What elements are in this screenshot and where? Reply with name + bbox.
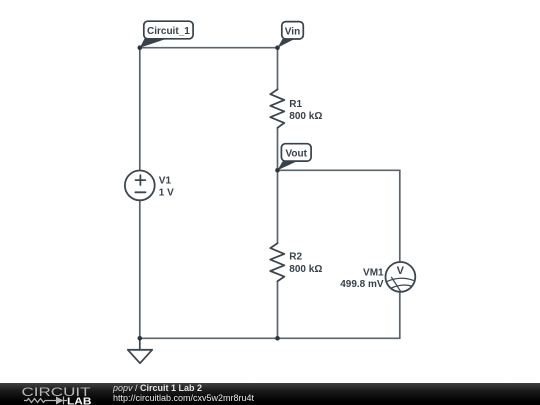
- svg-text:R2: R2: [289, 252, 302, 263]
- label R2 value: [289, 252, 322, 275]
- svg-text:1 V: 1 V: [159, 188, 174, 199]
- wire left vertical lower (V1 bottom to ground junction): [139, 200, 141, 338]
- resistor R1: [270, 89, 284, 127]
- wire bottom rail horizontal: [140, 337, 400, 339]
- svg-text:Vout: Vout: [285, 148, 307, 159]
- svg-text:Vin: Vin: [285, 26, 300, 37]
- svg-text:V1: V1: [159, 176, 172, 187]
- svg-text:Circuit_1: Circuit_1: [147, 26, 190, 37]
- svg-text:499.8 mV: 499.8 mV: [340, 279, 384, 290]
- junction node at R2 bottom rail: [275, 336, 280, 341]
- svg-text:VM1: VM1: [363, 268, 384, 279]
- node label Circuit_1: [140, 21, 193, 48]
- wire R2 bottom to bottom rail: [277, 281, 279, 338]
- wire ground stub vertical: [139, 338, 141, 350]
- wire top horizontal (node Circuit_1 to node Vin): [140, 47, 278, 49]
- ground: [128, 350, 152, 363]
- svg-text:LAB: LAB: [67, 396, 92, 405]
- node label Vin: [278, 22, 304, 48]
- footer url text: [113, 393, 254, 403]
- label VM1 value: [340, 268, 384, 290]
- wire voltmeter branch lower vertical: [399, 292, 401, 339]
- CircuitLab logo: [0, 383, 100, 405]
- junction node at Vout: [275, 168, 280, 173]
- wire left vertical upper (node to V1 top): [139, 48, 141, 171]
- wire right vertical (Vin to R1 top): [277, 48, 279, 90]
- wire Vout horizontal to voltmeter branch: [278, 169, 400, 171]
- label V1 value: [159, 176, 174, 199]
- svg-text:800 kΩ: 800 kΩ: [289, 264, 322, 275]
- svg-text:R1: R1: [289, 99, 302, 110]
- svg-text:V: V: [397, 265, 405, 277]
- junction node at ground: [138, 336, 143, 341]
- wire voltmeter branch upper vertical: [399, 170, 401, 262]
- label R1 value: [289, 99, 322, 122]
- junction node at Vin: [275, 45, 280, 50]
- footer title text: [113, 383, 202, 393]
- footer bar: [0, 383, 540, 405]
- wire R1 bottom to Vout node: [277, 128, 279, 171]
- resistor R2: [270, 243, 284, 281]
- voltmeter VM1: [386, 262, 416, 292]
- voltage source V1: [125, 171, 155, 201]
- node label Vout: [278, 144, 312, 171]
- wire Vout node to R2 top: [277, 170, 279, 243]
- junction node at Circuit_1: [138, 45, 143, 50]
- svg-text:800 kΩ: 800 kΩ: [289, 111, 322, 122]
